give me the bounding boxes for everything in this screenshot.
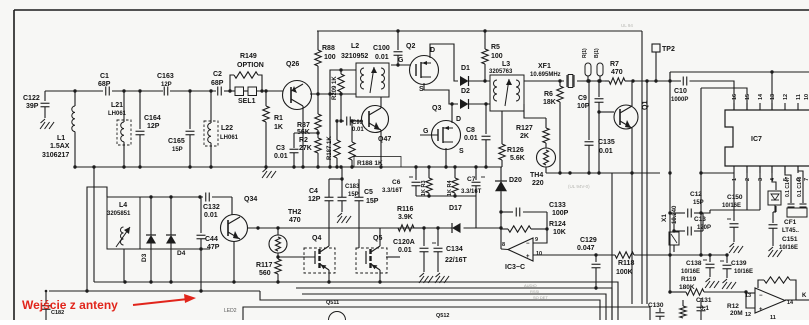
- svg-text:C3: C3: [276, 145, 285, 152]
- svg-text:L22: L22: [221, 125, 233, 132]
- svg-text:D: D: [456, 116, 461, 123]
- svg-text:68P: 68P: [98, 81, 111, 88]
- svg-text:68P: 68P: [211, 80, 224, 87]
- svg-text:10.240: 10.240: [672, 205, 678, 224]
- wire bus line E: [668, 72, 671, 292]
- wire feedback to pin9: [533, 212, 547, 243]
- svg-text:C129: C129: [580, 237, 597, 244]
- svg-text:0.1 C147: 0.1 C147: [785, 176, 791, 197]
- svg-text:UL 94: UL 94: [621, 23, 633, 28]
- wire Q3 gate stub: [420, 134, 438, 136]
- svg-text:C135: C135: [598, 139, 615, 146]
- svg-text:L3: L3: [502, 61, 510, 68]
- svg-text:3: 3: [758, 178, 764, 181]
- wire bus line A: [611, 173, 613, 320]
- svg-text:220: 220: [532, 180, 544, 187]
- svg-text:C133: C133: [549, 202, 566, 209]
- svg-text:C10: C10: [674, 88, 687, 95]
- mixer Q5: [356, 235, 400, 273]
- wire C10 to IC7 pin16: [690, 81, 735, 110]
- svg-text:470: 470: [611, 69, 623, 76]
- svg-text:R188 1K: R188 1K: [357, 160, 383, 167]
- wire to C10: [633, 79, 681, 82]
- svg-text:100: 100: [491, 53, 503, 60]
- svg-text:L2: L2: [351, 43, 359, 50]
- ground at C120A: [419, 273, 433, 283]
- capacitor C10: [671, 77, 688, 104]
- svg-text:120P: 120P: [697, 225, 711, 231]
- svg-text:8: 8: [502, 242, 505, 248]
- wire L4 section top rail: [107, 195, 232, 215]
- ground at C151: [768, 247, 782, 257]
- svg-text:0.01: 0.01: [398, 247, 412, 254]
- svg-text:12: 12: [783, 94, 789, 100]
- wire Q4 source to rail: [328, 270, 330, 282]
- capacitor C8: [464, 102, 491, 167]
- svg-text:R209 1K: R209 1K: [332, 76, 338, 100]
- svg-text:3205763: 3205763: [489, 69, 513, 75]
- svg-text:3210952: 3210952: [341, 53, 368, 60]
- resistor R119: [668, 276, 746, 295]
- svg-text:R116: R116: [397, 206, 413, 213]
- wire L2 primary top feed: [330, 70, 356, 167]
- svg-text:15P: 15P: [366, 198, 379, 205]
- resistor R3: [421, 167, 432, 196]
- svg-text:D20: D20: [509, 177, 522, 184]
- wire antenna input node W1: [45, 89, 283, 92]
- wire Q1 emitter: [630, 128, 633, 175]
- wire row to C138/C139: [670, 253, 729, 256]
- svg-text:Q47: Q47: [378, 136, 391, 143]
- svg-text:D: D: [430, 47, 435, 54]
- svg-text:560: 560: [259, 270, 271, 277]
- svg-text:5.6K: 5.6K: [510, 155, 525, 162]
- capacitor C122: [23, 91, 50, 118]
- wire top supply rail: [317, 29, 642, 32]
- svg-text:10K: 10K: [553, 229, 566, 236]
- wire IF ground rail: [546, 171, 660, 174]
- svg-text:10: 10: [804, 94, 809, 100]
- op-amp IC3-D: [745, 288, 794, 321]
- svg-text:SQ DET: SQ DET: [533, 295, 548, 300]
- ground at C183: [337, 213, 351, 223]
- resistor R4: [447, 167, 458, 196]
- wire pin6 elbow: [798, 166, 803, 199]
- svg-text:XF1: XF1: [538, 63, 551, 70]
- capacitor C130: [648, 302, 665, 320]
- svg-text:Q512: Q512: [436, 313, 449, 319]
- svg-text:C134: C134: [446, 246, 463, 253]
- box next stage enclosure: [243, 307, 650, 320]
- wire bus line F: [699, 88, 702, 257]
- net label bundle: [524, 283, 548, 300]
- svg-text:3205851: 3205851: [107, 211, 131, 217]
- svg-text:1000P: 1000P: [671, 97, 688, 103]
- diode D4: [166, 197, 186, 282]
- svg-text:Wejście z anteny: Wejście z anteny: [22, 298, 118, 312]
- capacitor C150: [722, 173, 743, 242]
- transistor Q47: [362, 106, 392, 144]
- svg-text:0.01: 0.01: [204, 212, 218, 219]
- svg-text:C183: C183: [345, 184, 360, 190]
- svg-text:C8: C8: [466, 127, 475, 134]
- wire Q2 drain: [430, 44, 458, 81]
- resistor R5: [482, 31, 503, 83]
- capacitor C163: [157, 73, 174, 96]
- svg-text:7: 7: [804, 178, 809, 181]
- svg-text:C100: C100: [373, 45, 390, 52]
- svg-text:L4: L4: [119, 202, 127, 209]
- svg-text:C164: C164: [144, 115, 161, 122]
- svg-text:S: S: [459, 148, 464, 155]
- resistor R2: [299, 130, 321, 167]
- capacitor C165: [168, 91, 195, 167]
- capacitor C133: [501, 202, 569, 217]
- svg-text:R124: R124: [549, 221, 566, 228]
- svg-text:X1: X1: [661, 214, 668, 222]
- svg-text:OPTION: OPTION: [237, 62, 264, 69]
- wire C12 row to bus: [668, 211, 674, 214]
- capacitor C7: [461, 167, 485, 196]
- capacitor C147: [785, 176, 795, 207]
- svg-text:C9: C9: [578, 95, 587, 102]
- svg-text:G: G: [398, 57, 404, 64]
- capacitor C131: [696, 297, 712, 320]
- svg-text:14: 14: [758, 93, 764, 100]
- svg-text:100K: 100K: [616, 269, 633, 276]
- svg-text:470: 470: [289, 217, 301, 224]
- svg-text:R126: R126: [507, 147, 524, 154]
- jumper SEL1: [235, 87, 257, 105]
- wire Q3 drain: [451, 104, 453, 123]
- svg-text:15P: 15P: [172, 147, 183, 153]
- svg-text:R6: R6: [544, 91, 553, 98]
- svg-text:180K: 180K: [679, 284, 695, 291]
- resistor R187: [327, 119, 340, 167]
- svg-text:0.1: 0.1: [700, 305, 709, 312]
- wire L3 secondary bottom: [524, 104, 546, 118]
- transistor Q1: [599, 101, 649, 129]
- wire Q26 emitter to ground rail: [302, 106, 304, 167]
- wire IC3-D inputs: [744, 290, 755, 308]
- wire Q47 collector to L2: [380, 97, 382, 108]
- svg-text:9: 9: [535, 237, 538, 243]
- resistor R6: [543, 79, 563, 174]
- svg-text:LH061: LH061: [220, 135, 239, 141]
- wire top feedback row: [670, 70, 809, 81]
- svg-text:10P: 10P: [577, 103, 590, 110]
- capacitor C5: [355, 179, 379, 248]
- svg-text:100: 100: [324, 54, 336, 61]
- wire common ground rail (front-end): [73, 165, 502, 282]
- resistor R126: [499, 111, 525, 167]
- IC U7 (IC7): [725, 110, 809, 166]
- resistor R124: [501, 221, 566, 236]
- svg-text:Q4: Q4: [312, 235, 321, 242]
- svg-text:Q26: Q26: [286, 61, 299, 68]
- svg-text:+: +: [526, 254, 530, 260]
- capacitor C44: [197, 197, 220, 291]
- svg-text:−: −: [759, 293, 763, 299]
- diode D17: [449, 205, 462, 233]
- svg-text:10/16E: 10/16E: [681, 269, 700, 275]
- svg-text:LT45..: LT45..: [782, 228, 799, 234]
- transistor Q511: [326, 300, 346, 320]
- svg-text:3.9K: 3.9K: [398, 214, 413, 221]
- capacitor C3: [274, 131, 320, 167]
- svg-text:C163: C163: [157, 73, 174, 80]
- svg-text:TH4: TH4: [530, 172, 543, 179]
- crystal XF1: [530, 63, 609, 88]
- resistor R1: [263, 91, 283, 167]
- resistor R149 (option): [230, 53, 264, 91]
- transistor Q3: [423, 105, 464, 155]
- capacitor C120A: [393, 228, 429, 272]
- wire Q34 emitter row (mixer injection): [247, 226, 398, 229]
- svg-text:10: 10: [536, 251, 542, 257]
- capacitor C2: [211, 71, 224, 96]
- wire Q1 collector: [631, 81, 633, 106]
- transformer L3: [489, 61, 524, 111]
- wire RC group tie: [416, 194, 476, 228]
- svg-text:1K R4: 1K R4: [447, 179, 453, 196]
- capacitor C135: [585, 79, 615, 174]
- resistor R120: [680, 300, 743, 318]
- wire pin2-3 tie: [703, 210, 760, 213]
- svg-text:C138: C138: [686, 260, 702, 267]
- svg-text:12P: 12P: [308, 196, 321, 203]
- svg-text:R7: R7: [610, 61, 619, 68]
- svg-text:1.5AX: 1.5AX: [50, 143, 70, 150]
- inductor L21: [108, 91, 131, 167]
- transistor Q34: [221, 196, 258, 282]
- svg-text:3.3/16T: 3.3/16T: [461, 189, 482, 195]
- diode D3: [141, 197, 156, 282]
- ground on rail at Q26: [262, 168, 276, 178]
- transformer L2: [341, 43, 389, 97]
- capacitor C148: [797, 176, 807, 207]
- wire pin3 stub: [759, 166, 761, 210]
- svg-text:47P: 47P: [207, 244, 220, 251]
- svg-text:C132: C132: [203, 204, 220, 211]
- inductor L1: [42, 91, 75, 167]
- svg-text:D2: D2: [461, 88, 470, 95]
- ground at C139: [722, 279, 736, 289]
- diode D20: [495, 167, 522, 249]
- svg-text:12: 12: [745, 312, 751, 318]
- thermistor TH4: [530, 143, 556, 187]
- svg-text:C131: C131: [696, 297, 712, 304]
- svg-text:27K: 27K: [299, 145, 312, 152]
- svg-text:Q2: Q2: [406, 43, 415, 50]
- net label UL94 mid: [568, 184, 590, 189]
- svg-text:2K: 2K: [520, 133, 529, 140]
- svg-text:12P: 12P: [147, 123, 160, 130]
- svg-text:11: 11: [796, 94, 802, 100]
- capacitor C151: [769, 206, 799, 251]
- svg-text:SEL1: SEL1: [238, 98, 256, 105]
- svg-text:C122: C122: [23, 95, 40, 102]
- link B: [594, 48, 603, 83]
- resistor R88: [315, 31, 336, 94]
- test point TP2: [652, 44, 675, 83]
- svg-text:18K: 18K: [543, 99, 556, 106]
- filter CF1: [782, 208, 807, 234]
- wire junction antenna feed: [199, 289, 202, 292]
- svg-text:AUDIO: AUDIO: [524, 283, 537, 288]
- ground at C150: [729, 243, 743, 253]
- svg-text:(UL 94V-0): (UL 94V-0): [568, 184, 590, 189]
- svg-text:C5: C5: [364, 189, 373, 196]
- svg-text:Q511: Q511: [326, 300, 339, 306]
- svg-text:R117: R117: [256, 262, 272, 269]
- capacitor C4: [308, 179, 334, 246]
- capacitor C13: [672, 216, 711, 236]
- diode D1: [460, 65, 490, 86]
- LED2 label: [224, 308, 237, 314]
- svg-text:R127: R127: [516, 125, 533, 132]
- resistor R116: [397, 206, 424, 231]
- svg-text:22/16T: 22/16T: [445, 257, 468, 264]
- capacitor C1: [98, 73, 111, 96]
- svg-text:TP2: TP2: [662, 46, 675, 53]
- svg-text:−: −: [526, 241, 530, 247]
- diode D2: [460, 88, 490, 109]
- transistor Q512: [436, 313, 449, 319]
- svg-text:0.01: 0.01: [375, 54, 389, 61]
- svg-text:Q34: Q34: [244, 196, 257, 203]
- transistor Q2: [398, 43, 439, 93]
- svg-text:13: 13: [770, 94, 776, 100]
- transistor Q26: [283, 61, 312, 110]
- svg-text:3.3/16T: 3.3/16T: [382, 188, 403, 194]
- wire bus line B: [631, 173, 633, 304]
- wire pin2 stub: [746, 166, 748, 210]
- svg-text:RSSI: RSSI: [530, 289, 539, 294]
- resistor R117: [256, 253, 281, 282]
- svg-text:R1: R1: [274, 115, 283, 122]
- capacitor C100: [373, 31, 411, 67]
- svg-text:R(1): R(1): [582, 48, 588, 58]
- svg-text:0.01: 0.01: [274, 153, 288, 160]
- IC7 top pins 16-10: [732, 93, 809, 110]
- wire Q2 source to mixer diodes: [424, 83, 458, 106]
- wire bottom rail: [94, 280, 618, 320]
- svg-text:D1: D1: [461, 65, 470, 72]
- svg-text:14: 14: [787, 300, 794, 306]
- svg-text:C151: C151: [782, 236, 798, 243]
- svg-text:1K: 1K: [274, 124, 283, 131]
- svg-text:0.01: 0.01: [599, 148, 613, 155]
- svg-text:R119: R119: [681, 276, 697, 283]
- svg-text:LED2: LED2: [224, 308, 237, 314]
- capacitor C138: [681, 255, 715, 277]
- svg-text:R87: R87: [297, 122, 310, 129]
- crystal X1: [661, 205, 679, 252]
- op-amp IC3-C: [502, 237, 542, 271]
- resistor feedback R: [758, 277, 809, 300]
- svg-text:B(1): B(1): [594, 48, 600, 58]
- wire pin5 elbow: [785, 166, 791, 199]
- annotation Wejscie z anteny: [22, 294, 196, 312]
- svg-text:R187 1K: R187 1K: [327, 136, 333, 160]
- resistor R7: [605, 61, 635, 84]
- wire op-amp output to D20 node: [501, 248, 508, 251]
- net label UL94 top: [621, 23, 633, 28]
- resistor R188: [349, 119, 401, 167]
- thermistor TH2: [269, 209, 301, 253]
- capacitor C129: [577, 237, 601, 290]
- svg-text:R2: R2: [299, 137, 308, 144]
- svg-text:0.01: 0.01: [352, 127, 364, 133]
- wire Q5 drain to IF row: [379, 228, 381, 246]
- svg-text:12P: 12P: [161, 82, 172, 88]
- svg-text:R5: R5: [491, 44, 500, 51]
- capacitor C9: [577, 79, 604, 173]
- mixer Q4: [276, 235, 335, 273]
- resistor R209: [332, 68, 344, 121]
- svg-text:LH061: LH061: [108, 111, 127, 117]
- svg-text:15: 15: [745, 94, 751, 100]
- capacitor C139: [720, 255, 753, 278]
- svg-text:D3: D3: [141, 253, 148, 262]
- wire pin4 elbow: [772, 166, 776, 190]
- svg-text:0.047: 0.047: [577, 245, 595, 252]
- svg-text:R12: R12: [727, 303, 739, 310]
- wire pin15 elbow: [701, 88, 747, 110]
- svg-text:L21: L21: [111, 102, 123, 109]
- svg-text:C150: C150: [727, 194, 743, 201]
- svg-text:10.695MHz: 10.695MHz: [530, 72, 561, 78]
- resistor R87: [297, 94, 321, 136]
- wire bundle line 2: [296, 288, 612, 320]
- svg-text:16: 16: [732, 94, 738, 100]
- svg-text:0.1 C148: 0.1 C148: [797, 176, 803, 197]
- capacitor C134: [432, 228, 468, 272]
- svg-text:11: 11: [770, 315, 776, 320]
- svg-text:IC7: IC7: [751, 136, 762, 143]
- svg-text:D4: D4: [177, 250, 186, 257]
- svg-text:C1: C1: [100, 73, 109, 80]
- svg-text:15P: 15P: [693, 200, 704, 206]
- ground at C134: [435, 273, 449, 283]
- svg-text:C165: C165: [168, 138, 185, 145]
- wire antenna feed to L4 rail: [85, 187, 107, 293]
- wire Q26 collector node: [310, 92, 356, 95]
- svg-text:39P: 39P: [26, 103, 39, 110]
- svg-text:D17: D17: [449, 205, 462, 212]
- wire bus line C: [641, 31, 643, 304]
- svg-text:IC3−C: IC3−C: [505, 264, 525, 271]
- svg-text:10/16E: 10/16E: [734, 269, 753, 275]
- wire mixer IF row: [398, 226, 501, 229]
- capacitor C164: [136, 91, 161, 167]
- IC7 bottom pins 1-7: [732, 166, 809, 181]
- capacitor C12: [674, 191, 704, 218]
- capacitor C6: [382, 167, 421, 196]
- resistor R118: [615, 252, 634, 276]
- svg-text:TH2: TH2: [288, 209, 301, 216]
- svg-text:1: 1: [732, 178, 738, 181]
- svg-text:C120A: C120A: [393, 239, 415, 246]
- ground at C122: [40, 119, 54, 129]
- svg-text:3106217: 3106217: [42, 152, 69, 159]
- ground at C138: [705, 278, 719, 288]
- svg-text:C44: C44: [205, 236, 218, 243]
- svg-text:C7: C7: [467, 176, 476, 183]
- inductor L4: [107, 197, 140, 249]
- wire op-amp output row: [533, 253, 672, 256]
